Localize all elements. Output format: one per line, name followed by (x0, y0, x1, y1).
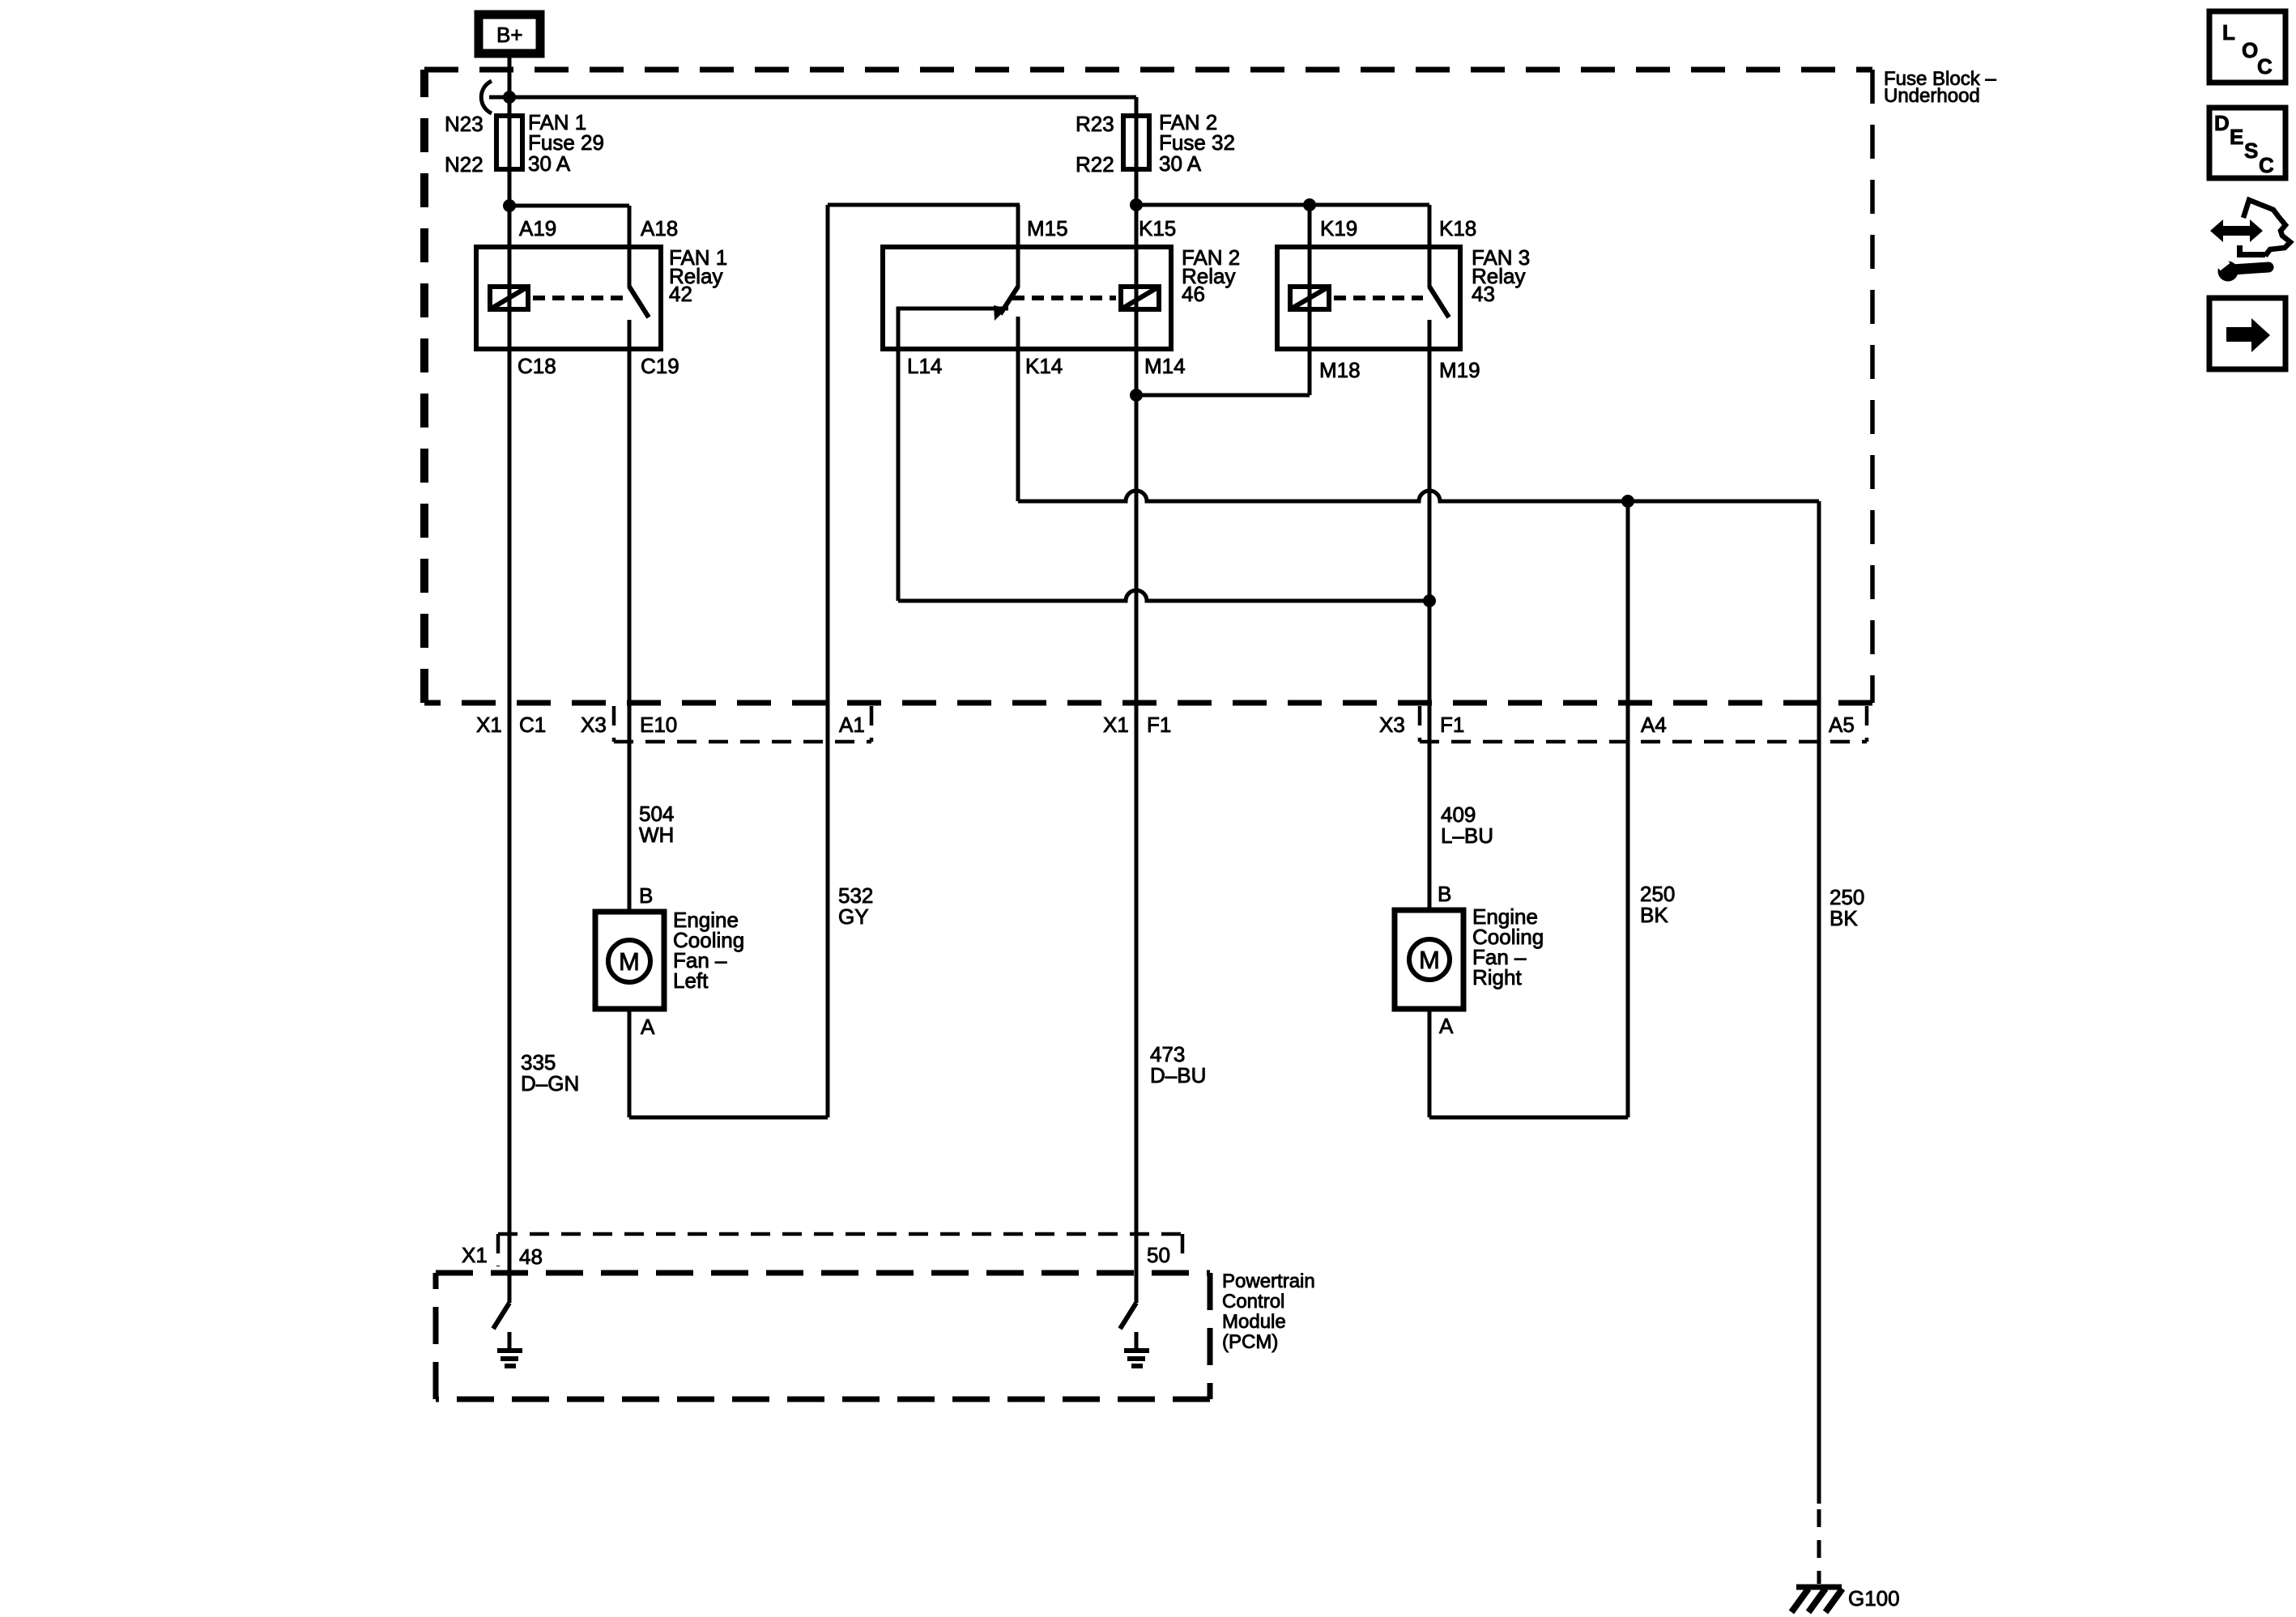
wire continuation curl (481, 81, 492, 113)
relay K43 coil (1290, 287, 1329, 309)
svg-text:X1: X1 (462, 1243, 488, 1267)
wire L14 line to M19 with hop (898, 590, 1429, 601)
relay K43 FAN 3 box (1277, 216, 1530, 382)
wire fuse2/K15/M14 vertical (1135, 97, 1139, 1303)
connector X3 dashed sub-box right (1420, 706, 1867, 742)
wire C19 pin to E10 (628, 320, 632, 913)
svg-text:46: 46 (1182, 282, 1205, 306)
relay K43 switch blade (1429, 287, 1449, 317)
motor M2 engine cooling fan right (1395, 882, 1544, 1038)
svg-text:X1: X1 (476, 713, 502, 737)
svg-text:A5: A5 (1829, 713, 1855, 737)
svg-text:B+: B+ (496, 23, 523, 47)
fuse F32 FAN 2 (1076, 110, 1235, 177)
wire left loop bottom (629, 1116, 828, 1120)
node junction M19/L14 (1423, 594, 1436, 607)
relay K46 NC contact line (898, 309, 1008, 601)
icon service outline shape (2243, 200, 2290, 256)
node junction A19/A18 split (503, 199, 516, 212)
relay K46 switch blade (1000, 287, 1018, 314)
svg-text:43: 43 (1472, 282, 1495, 306)
wire 504 WH label (639, 802, 674, 847)
icon next arrow box (2209, 298, 2285, 369)
svg-text:A19: A19 (519, 216, 556, 240)
svg-text:K18: K18 (1439, 216, 1476, 240)
PCM dashed box (436, 1270, 1315, 1399)
svg-text:D–BU: D–BU (1150, 1063, 1206, 1087)
wire 409 L-BU label (1441, 802, 1493, 848)
svg-text:X1: X1 (1103, 713, 1129, 737)
svg-text:Control: Control (1222, 1291, 1284, 1313)
wire left fan A drop (628, 1009, 632, 1117)
icon service wrench (2216, 257, 2268, 282)
svg-text:30 A: 30 A (1159, 151, 1202, 176)
PCM driver 50 switch blade (1120, 1303, 1136, 1329)
svg-text:A1: A1 (839, 713, 865, 737)
relay K46 FAN 2 box (883, 216, 1240, 378)
PCM connector row (462, 1234, 1182, 1269)
fuse block - underhood dashed box (424, 68, 1996, 703)
node junction A4 tap (1621, 495, 1634, 508)
wire A18 pin drop (628, 206, 632, 287)
wire K18 pin (1428, 205, 1432, 287)
wire M19 to right fan B (1428, 320, 1432, 912)
svg-text:GY: GY (838, 904, 869, 929)
svg-text:M15: M15 (1027, 216, 1068, 240)
svg-text:X3: X3 (581, 713, 607, 737)
wire K19/M18 pin (1308, 205, 1312, 395)
svg-text:G100: G100 (1848, 1586, 1900, 1611)
svg-text:A: A (1439, 1014, 1454, 1038)
svg-text:Powertrain: Powertrain (1222, 1270, 1315, 1292)
svg-text:M14: M14 (1144, 354, 1186, 378)
svg-text:Left: Left (673, 968, 709, 993)
wire right loop bottom (1429, 1116, 1628, 1120)
wire right fan A drop (1428, 1009, 1432, 1117)
relay K46 coil (1121, 287, 1159, 309)
bus segment K15 to K18 (1136, 203, 1429, 207)
icon LOC box (2209, 11, 2285, 83)
svg-text:M18: M18 (1319, 358, 1361, 382)
svg-text:(PCM): (PCM) (1222, 1331, 1278, 1353)
wire A5 dashed continuation (1817, 1509, 1821, 1584)
wire M18 jog to M14 (1136, 394, 1310, 398)
svg-text:C18: C18 (518, 354, 556, 378)
relay K42 switch blade (629, 287, 649, 317)
wire B+ feed vertical (508, 57, 512, 1303)
svg-text:50: 50 (1147, 1243, 1170, 1267)
relay K42 coil (490, 287, 528, 309)
svg-text:A: A (641, 1015, 655, 1039)
svg-text:O: O (2242, 38, 2258, 62)
svg-text:D–GN: D–GN (521, 1071, 579, 1096)
svg-text:42: 42 (669, 282, 692, 306)
svg-text:F1: F1 (1147, 713, 1171, 737)
node junction B+ split (503, 91, 516, 104)
svg-text:R22: R22 (1076, 152, 1114, 177)
svg-text:C: C (2257, 54, 2273, 79)
bus segment to relay2 M15 (828, 203, 1020, 207)
svg-text:F1: F1 (1440, 713, 1464, 737)
wire K14 pin drop (1016, 317, 1020, 501)
wire 473 D-BU label (1150, 1042, 1206, 1087)
svg-text:Module: Module (1222, 1311, 1286, 1333)
fuse F29 FAN 1 (445, 110, 604, 177)
wire 335 D-GN label (521, 1050, 579, 1096)
svg-text:A18: A18 (641, 216, 678, 240)
svg-text:S: S (2244, 138, 2258, 163)
svg-text:BK: BK (1640, 903, 1668, 927)
svg-text:K15: K15 (1139, 216, 1176, 240)
svg-text:C19: C19 (641, 354, 679, 378)
node junction K19 (1303, 198, 1316, 211)
svg-text:WH: WH (639, 823, 674, 847)
svg-text:N23: N23 (445, 112, 483, 136)
wire M15 pin drop (1016, 205, 1020, 287)
svg-text:L: L (2222, 20, 2235, 45)
relay K46 coil-switch link (1012, 296, 1116, 300)
svg-text:X3: X3 (1379, 713, 1405, 737)
svg-text:R23: R23 (1076, 112, 1114, 136)
svg-text:C1: C1 (519, 713, 546, 737)
svg-text:E: E (2230, 125, 2243, 149)
node junction M14/M18 (1130, 389, 1143, 402)
svg-text:M19: M19 (1439, 358, 1480, 382)
svg-text:Right: Right (1472, 965, 1522, 989)
relay K42 FAN 1 box (476, 216, 727, 378)
svg-text:48: 48 (519, 1245, 543, 1269)
PCM driver 48 switch blade (493, 1303, 509, 1329)
wire K14 to A5 with hops (1018, 491, 1819, 501)
wire 250 BK label A5 (1830, 885, 1864, 930)
svg-text:M: M (1419, 946, 1440, 974)
wire 532 GY label (838, 883, 873, 929)
motor M1 engine cooling fan left (595, 883, 744, 1039)
svg-text:N22: N22 (445, 152, 483, 177)
relay K43 coil-switch link (1334, 296, 1423, 300)
svg-text:K19: K19 (1320, 216, 1357, 240)
svg-text:K14: K14 (1025, 354, 1063, 378)
wire A5 ground vertical (1817, 501, 1821, 1504)
connector X3 dashed sub-box left (614, 706, 871, 742)
ground PCM 50 (1124, 1332, 1149, 1366)
ground PCM 48 (497, 1332, 522, 1366)
svg-text:L14: L14 (907, 354, 942, 378)
icon service double arrow (2210, 219, 2263, 242)
svg-text:A4: A4 (1641, 713, 1667, 737)
wire A1 to left loop (826, 205, 830, 1117)
svg-text:D: D (2214, 111, 2230, 135)
svg-text:B: B (1438, 882, 1451, 906)
ground G100 (1791, 1586, 1900, 1612)
icon service L-step (2237, 245, 2265, 257)
wire A18 branch (509, 204, 629, 208)
relay K42 coil-switch link (533, 296, 624, 300)
wire A4 ground vertical (1626, 501, 1630, 1117)
svg-text:BK: BK (1830, 906, 1858, 930)
svg-text:Underhood: Underhood (1884, 85, 1980, 107)
B+ terminal (479, 15, 540, 53)
wire top horizontal bus (489, 96, 1136, 100)
svg-text:30 A: 30 A (528, 151, 571, 176)
wire 250 BK label A4 (1640, 882, 1675, 927)
connector row labels under fuse block (476, 713, 1855, 737)
node junction K15 (1130, 198, 1143, 211)
svg-text:L–BU: L–BU (1441, 823, 1493, 848)
svg-text:E10: E10 (640, 713, 677, 737)
svg-text:M: M (619, 947, 640, 976)
svg-text:B: B (639, 883, 653, 908)
svg-text:C: C (2259, 153, 2274, 177)
icon DESC box (2209, 108, 2285, 178)
